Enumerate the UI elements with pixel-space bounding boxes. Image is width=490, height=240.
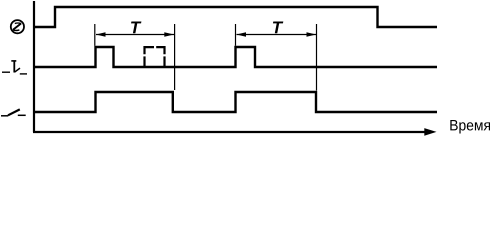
waveform 2 dashed (optional) pulse: [145, 47, 165, 67]
dimension T1 extension line right: [174, 24, 176, 90]
dimension T1 left arrowhead: [96, 32, 106, 37]
dimension T2 extension line left: [235, 24, 237, 46]
dimension T2 right arrowhead: [307, 32, 317, 37]
time axis arrowhead: [424, 128, 436, 136]
dimension T2 left arrowhead: [236, 32, 246, 37]
time axis: [33, 131, 425, 133]
ramp symbol (row 3 output): [1, 109, 26, 115]
label T2: [273, 22, 283, 34]
dimension T2 extension line right: [316, 24, 318, 91]
label Время: [450, 120, 490, 134]
generator symbol G1 (circle with wave): [11, 20, 24, 33]
waveform 3 (output signal): [34, 92, 437, 112]
vertical axis: [33, 1, 35, 132]
pulse symbol (row 2 input): [2, 61, 27, 74]
dimension T1 right arrowhead: [164, 32, 174, 37]
dimension T1 extension line left: [94, 24, 96, 46]
waveform 2 (trigger pulses): [34, 47, 437, 67]
label T1: [131, 22, 141, 34]
dimension T1 line: [96, 34, 174, 36]
waveform 1 (clock signal): [34, 7, 437, 27]
dimension T2 line: [237, 34, 317, 36]
